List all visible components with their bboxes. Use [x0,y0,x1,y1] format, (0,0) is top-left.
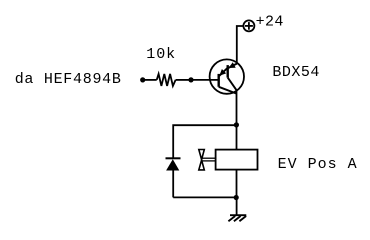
part label BDX54 [272,64,320,81]
ground [228,215,246,221]
value label 10k [146,46,176,63]
junction dot (collector node) [234,122,239,127]
junction dot (base node) [188,77,193,82]
diode D1 (flyback, cathode up) [166,158,181,170]
part label EV Pos A [278,156,358,173]
wire: collector down to junction [236,90,238,125]
node dot (input) [140,77,145,82]
wire: input dot to resistor [143,79,157,81]
wire: base node to transistor base [191,79,219,81]
svg-text:EV Pos A: EV Pos A [278,156,358,173]
wire: solenoid to bottom node [236,170,238,198]
wire: diode anode down to bottom rail [172,171,174,198]
svg-text:10k: 10k [146,46,176,63]
transistor Q1 BDX54 (PNP darlington) [210,59,244,93]
wire: bottom node to ground [236,198,238,216]
svg-text:da HEF4894B: da HEF4894B [15,71,122,88]
junction dot (bottom node) [234,195,239,200]
valve link (double line) [202,158,216,161]
svg-text:+24: +24 [256,14,284,31]
wire: junction down to solenoid coil [236,125,238,150]
solenoid coil box (EV Pos A) [216,150,258,170]
wire: resistor to base node [176,79,191,81]
wire: bottom rail [173,196,236,198]
node label: da HEF4894B [15,71,122,88]
wire: emitter to +24 terminal [237,26,244,64]
wire: junction left to diode branch [173,125,236,157]
svg-text:BDX54: BDX54 [272,64,320,81]
resistor R1 10k (zigzag) [157,74,176,86]
valve body (bowtie) [199,150,205,170]
power label +24 [256,14,284,31]
power terminal +24 (circle with plus) [243,20,254,31]
